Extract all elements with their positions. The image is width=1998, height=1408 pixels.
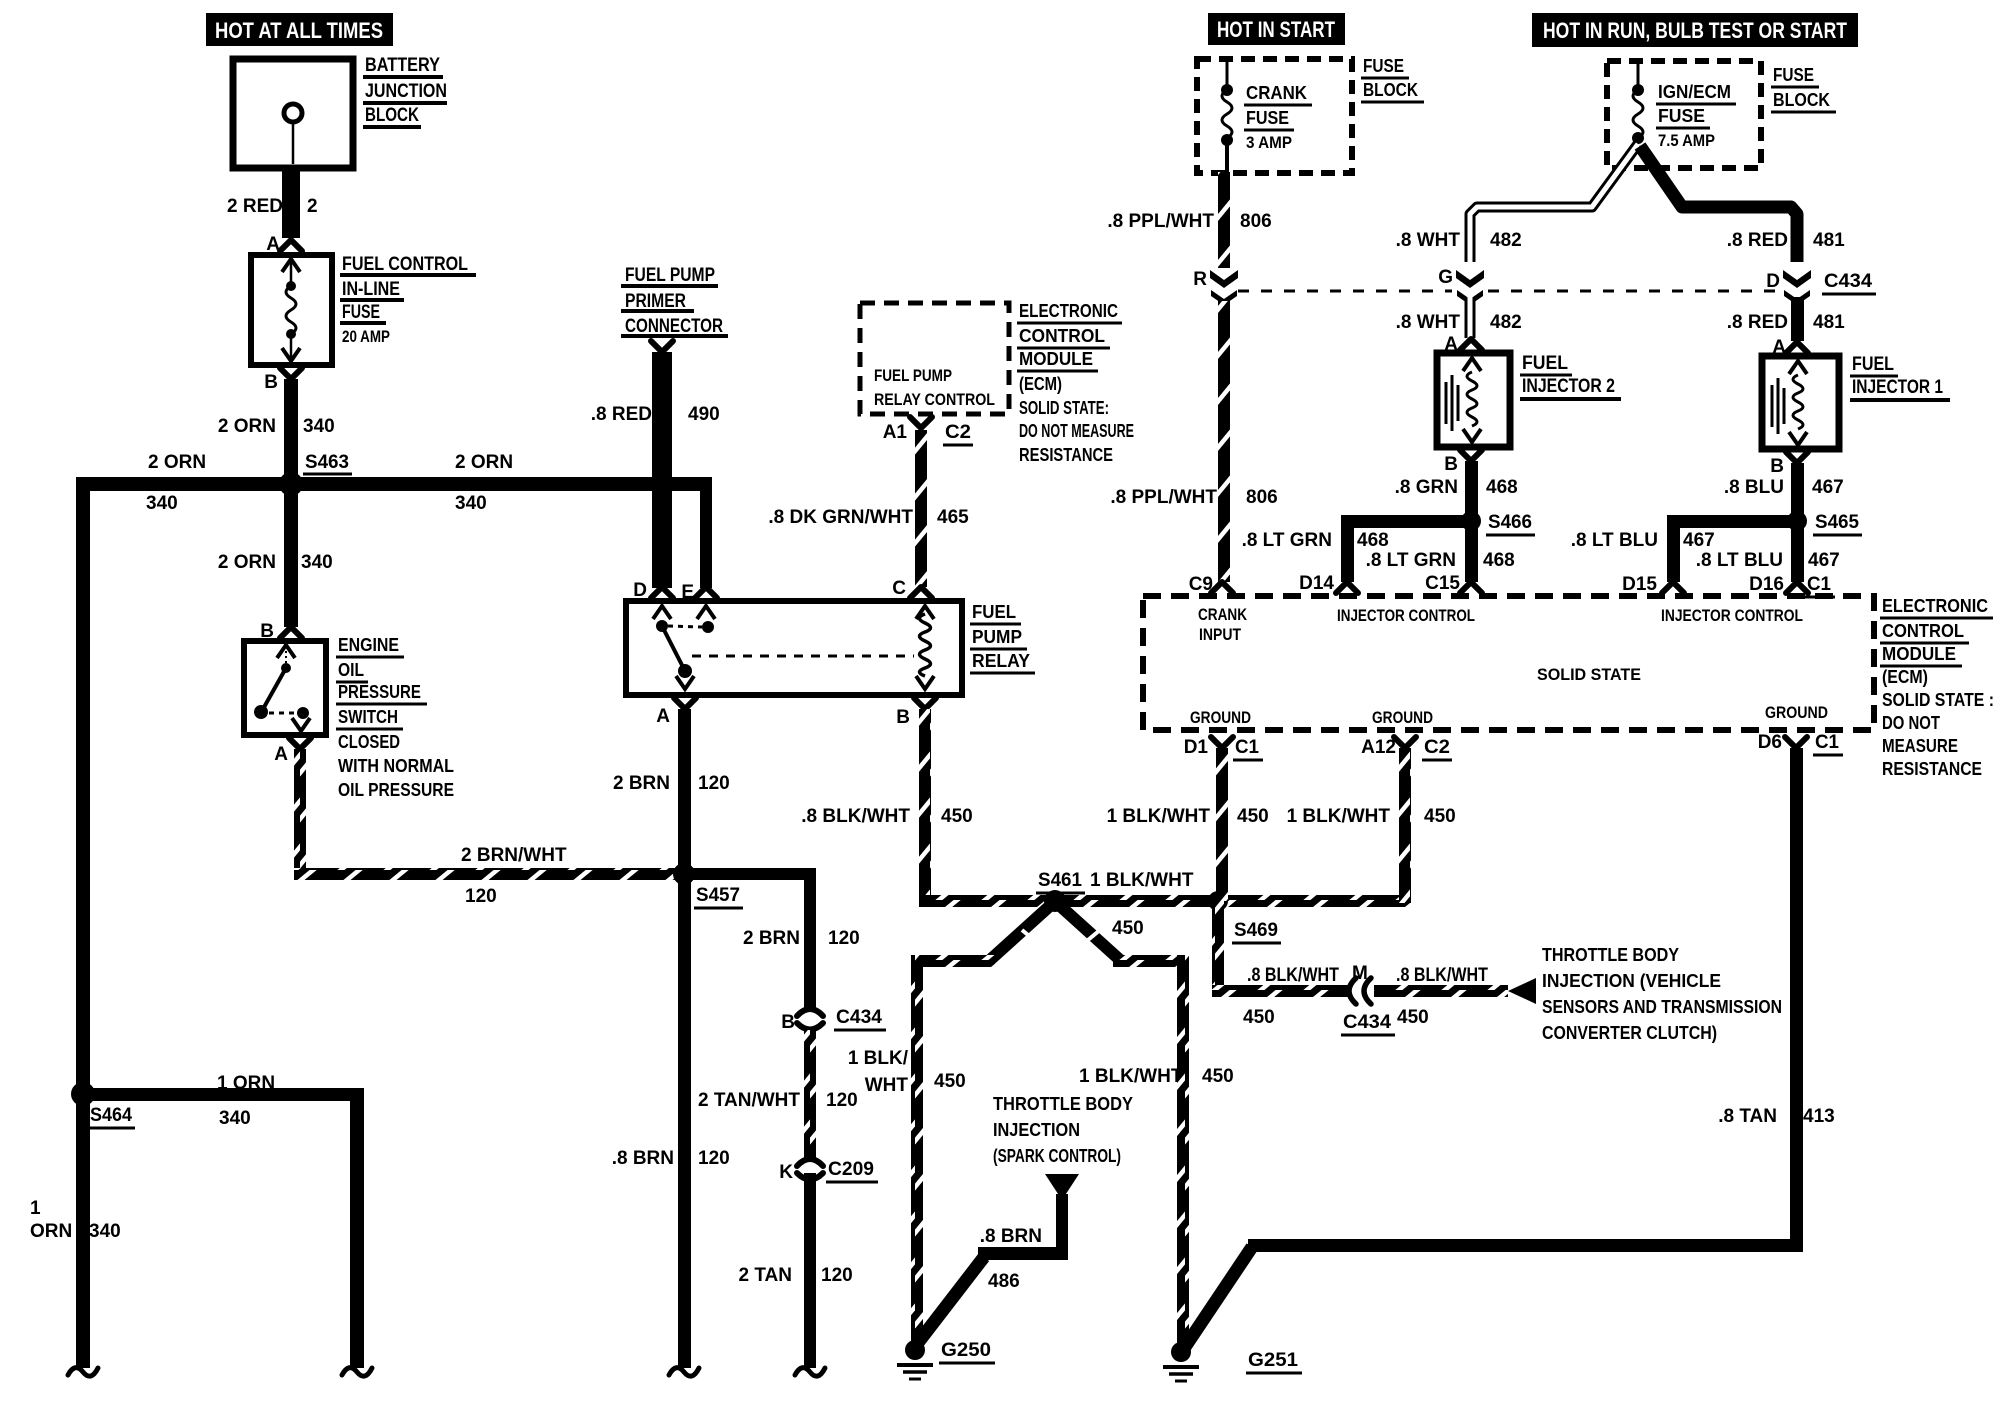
svg-text:SOLID STATE :: SOLID STATE : [1882,690,1994,710]
connector G of C434 [1456,270,1484,305]
svg-text:WITH NORMAL: WITH NORMAL [338,756,454,776]
svg-text:FUEL: FUEL [972,602,1016,622]
header HOT IN START [1208,13,1345,45]
svg-text:468: 468 [1483,550,1515,571]
svg-text:GROUND: GROUND [1765,703,1828,722]
svg-text:2 BRN/WHT: 2 BRN/WHT [461,845,567,866]
svg-text:340: 340 [455,493,487,514]
wire end hook 2 TAN [795,1368,825,1377]
svg-text:WHT: WHT [865,1075,909,1096]
wire D1 to S469, 1 BLK/WHT 450 striped [1216,748,1228,901]
connector C434 dashed line [1238,290,1452,293]
svg-text:1 BLK/WHT: 1 BLK/WHT [1079,1066,1183,1087]
svg-text:B: B [264,372,278,393]
svg-text:M: M [1352,963,1368,984]
svg-text:IGN/ECM: IGN/ECM [1658,82,1731,102]
svg-text:K: K [779,1162,793,1183]
svg-text:C434: C434 [1343,1012,1391,1033]
svg-text:.8 DK GRN/WHT: .8 DK GRN/WHT [768,507,913,528]
svg-text:A1: A1 [883,422,908,443]
svg-text:R: R [1193,269,1207,290]
node S463 [279,472,303,496]
wire S457 down, .8 BRN 120 [678,874,691,1368]
svg-text:INJECTION: INJECTION [993,1120,1080,1140]
svg-text:CRANK: CRANK [1198,605,1248,624]
connector pin B of injector 1 [1786,452,1808,463]
svg-text:1: 1 [30,1198,41,1219]
wire G250 to spark control, .8 BRN 486 [917,1257,984,1344]
svg-text:BLOCK: BLOCK [1773,90,1830,110]
fuel injector 1 [1762,356,1839,449]
off-page arrow spark control [1045,1174,1079,1200]
svg-text:MODULE: MODULE [1882,644,1956,664]
svg-text:2 ORN: 2 ORN [148,452,206,473]
wire tent right diagonal to G251 [1058,904,1120,960]
svg-text:806: 806 [1240,211,1272,232]
svg-text:340: 340 [219,1108,251,1129]
electronic control module ECM dashed box [1143,596,1874,730]
svg-text:S464: S464 [90,1105,132,1126]
svg-text:C2: C2 [945,422,971,443]
svg-text:340: 340 [303,416,335,437]
connector R of C434 [1210,270,1238,305]
svg-text:.8 BRN: .8 BRN [612,1148,674,1169]
connector pin A of relay [674,698,696,709]
svg-text:FUSE: FUSE [342,302,380,323]
svg-text:HOT IN START: HOT IN START [1217,17,1335,42]
wire S466 to C15, .8 LT GRN 468 [1465,521,1478,582]
connector pin D1 C1 of ECM [1211,737,1233,748]
svg-text:C434: C434 [836,1007,882,1028]
svg-text:C2: C2 [1424,737,1450,758]
wire S469 down and right, .8 BLK/WHT 450 striped [1212,901,1224,997]
wire M to off-page, .8 BLK/WHT 450 striped [1374,985,1508,997]
node S457 [673,863,695,885]
battery junction block B1 [233,59,353,168]
svg-text:467: 467 [1808,550,1840,571]
connector pin B of fuse [280,368,302,379]
off-page arrow to vehicle sensors [1508,978,1536,1004]
svg-text:.8 BLK/WHT: .8 BLK/WHT [1396,965,1488,986]
label throttle body injection spark control [993,1094,1133,1166]
svg-text:A: A [656,706,670,727]
wire left column 1 ORN 340 [76,477,90,1368]
svg-text:340: 340 [146,493,178,514]
label electronic control module right side [1880,596,1994,779]
svg-text:S465: S465 [1815,512,1859,533]
ECM dashed box fuel pump relay control U1a [860,303,1009,414]
svg-text:2 BRN: 2 BRN [613,773,670,794]
connector fuel pump primer [651,341,673,352]
ground G251 [1163,1342,1302,1381]
svg-text:BLOCK: BLOCK [365,105,419,126]
fuel injector 2 [1437,353,1510,447]
label fuel injector 1 [1850,354,1950,400]
svg-text:.8 BRN: .8 BRN [980,1226,1042,1247]
svg-text:C1: C1 [1815,732,1839,753]
svg-text:S466: S466 [1488,512,1532,533]
svg-text:450: 450 [941,806,973,827]
svg-text:20 AMP: 20 AMP [342,327,390,346]
connector pin D16 C1 of ECM [1786,582,1808,593]
svg-text:D14: D14 [1299,573,1334,594]
connector pin B of injector 2 [1460,450,1482,461]
svg-text:INJECTOR CONTROL: INJECTOR CONTROL [1337,606,1475,625]
svg-text:A12: A12 [1361,737,1396,758]
wire tent left diagonal to G250 [990,904,1052,960]
svg-text:481: 481 [1813,312,1845,333]
header HOT IN RUN, BULB TEST OR START [1532,13,1858,47]
svg-text:ELECTRONIC: ELECTRONIC [1019,301,1118,321]
fuse CRANK FUSE 3 AMP [1221,62,1233,172]
label battery junction block [363,55,447,127]
connector pin C15 of ECM [1460,582,1482,593]
label fuel control in-line fuse [340,254,476,346]
svg-text:465: 465 [937,507,969,528]
svg-text:.8 BLU: .8 BLU [1724,477,1784,498]
svg-text:PUMP: PUMP [972,627,1022,647]
svg-text:D: D [1766,271,1780,292]
svg-text:D1: D1 [1184,737,1209,758]
svg-text:(SPARK CONTROL): (SPARK CONTROL) [993,1146,1121,1166]
svg-text:2 TAN: 2 TAN [739,1265,792,1286]
svg-text:.8 WHT: .8 WHT [1396,312,1461,333]
svg-text:.8 BLK/WHT: .8 BLK/WHT [1247,965,1339,986]
svg-text:SWITCH: SWITCH [338,707,398,727]
wire end hook S464 branch [342,1368,372,1377]
svg-text:467: 467 [1683,530,1715,551]
wire end hook left [68,1368,98,1377]
wire oil switch A down, 2 BRN/WHT striped [294,749,306,870]
wire ground bus 1 BLK/WHT 450 striped [919,895,1411,907]
connector pin A1 C2 of ECM [910,417,932,428]
svg-text:SENSORS AND TRANSMISSION: SENSORS AND TRANSMISSION [1542,997,1782,1017]
wire S465 to D15, .8 LT BLU 467 [1667,515,1797,528]
svg-text:C9: C9 [1189,574,1213,595]
svg-text:2 TAN/WHT: 2 TAN/WHT [698,1090,800,1111]
svg-text:D15: D15 [1622,574,1657,595]
svg-text:340: 340 [301,552,333,573]
svg-text:FUSE: FUSE [1658,106,1705,126]
svg-text:1 BLK/WHT: 1 BLK/WHT [1287,806,1391,827]
svg-text:450: 450 [1112,918,1144,939]
connector pin A12 C2 of ECM [1394,737,1416,748]
svg-text:120: 120 [698,773,730,794]
engine oil pressure switch S1 [244,641,326,735]
connector pin A of injector 2 [1460,339,1482,350]
svg-text:.8 RED: .8 RED [591,404,652,425]
fuse IGN/ECM FUSE 7.5 AMP [1632,64,1644,144]
header HOT AT ALL TIMES [206,13,393,46]
wire D to injector 1 A, .8 RED 481 [1791,297,1804,341]
svg-text:RESISTANCE: RESISTANCE [1882,759,1982,779]
svg-text:.8 RED: .8 RED [1727,230,1788,251]
svg-text:BLOCK: BLOCK [1363,80,1418,100]
svg-text:120: 120 [828,928,860,949]
svg-text:3 AMP: 3 AMP [1246,133,1292,152]
label fuse block (crank) [1361,56,1424,102]
wire A12 to bus, 1 BLK/WHT 450 striped [1399,748,1411,903]
svg-text:S461: S461 [1038,870,1082,891]
wire S465 to D16, .8 LT BLU 467 [1791,521,1804,582]
wire 2 TAN/WHT 120 striped [804,1030,816,1158]
wire S464 to right, 1 ORN 340 [83,1088,364,1101]
svg-text:2 BRN: 2 BRN [743,928,800,949]
connector B C434 inline [781,1007,886,1033]
svg-text:INJECTOR 1: INJECTOR 1 [1852,377,1943,398]
label electronic control module (ecm) top [1017,301,1134,465]
wire ign fuse to G, .8 WHT 482 double line [1470,144,1638,262]
svg-text:2 ORN: 2 ORN [218,552,276,573]
svg-text:C434: C434 [1824,271,1872,292]
label crank fuse [1244,83,1312,152]
svg-text:B: B [781,1012,795,1033]
svg-text:MODULE: MODULE [1019,349,1093,369]
svg-text:GROUND: GROUND [1190,708,1251,727]
svg-text:1 BLK/WHT: 1 BLK/WHT [1090,870,1194,891]
svg-text:PRIMER: PRIMER [625,291,686,312]
wire S463 horizontal bus [76,477,712,491]
svg-text:FUEL: FUEL [1852,354,1894,375]
svg-text:SOLID STATE: SOLID STATE [1537,665,1641,684]
ground G250 [897,1340,995,1379]
svg-text:B: B [1770,456,1784,477]
label engine oil pressure switch [336,635,454,800]
svg-text:.8 PPL/WHT: .8 PPL/WHT [1110,487,1217,508]
svg-text:FUEL: FUEL [1522,353,1568,374]
svg-text:BATTERY: BATTERY [365,55,440,76]
svg-text:D6: D6 [1758,732,1782,753]
svg-text:RELAY: RELAY [972,651,1030,671]
svg-text:.8 LT GRN: .8 LT GRN [1242,530,1332,551]
wire G to injector 2 A, .8 WHT 482 double line [1465,299,1476,338]
svg-text:ORN: ORN [30,1221,72,1242]
wire R to ECM C9, .8 PPL/WHT 806 striped [1218,301,1230,582]
svg-text:FUSE: FUSE [1363,56,1404,76]
node S465 [1787,511,1807,531]
fuel control in-line fuse F1 [251,255,332,365]
wire ign fuse to D, .8 RED 481 [1640,146,1797,262]
label fuse block (right) [1771,65,1836,112]
svg-text:OIL PRESSURE: OIL PRESSURE [338,780,454,800]
svg-text:ENGINE: ENGINE [338,635,399,655]
svg-text:S463: S463 [305,452,349,473]
svg-text:2: 2 [307,196,318,217]
label ign/ecm fuse [1656,82,1736,150]
svg-text:INJECTOR CONTROL: INJECTOR CONTROL [1661,606,1803,625]
fuel pump relay K1 [626,601,962,695]
connector D of C434 [1783,270,1811,305]
svg-text:SOLID STATE:: SOLID STATE: [1019,398,1109,418]
svg-text:1 BLK/: 1 BLK/ [848,1048,909,1069]
svg-text:C15: C15 [1425,573,1460,594]
label fuel pump relay [970,602,1035,673]
svg-text:CLOSED: CLOSED [338,732,400,752]
svg-text:CONTROL: CONTROL [1882,621,1964,641]
svg-text:120: 120 [826,1090,858,1111]
fuse block dashed box (crank) [1197,59,1352,173]
connector pin A of oil switch [289,738,311,749]
wire relay B down, .8 BLK/WHT 450 striped [919,709,931,901]
connector pin C of relay [910,587,932,598]
svg-text:.8 RED: .8 RED [1727,312,1788,333]
svg-text:DO NOT MEASURE: DO NOT MEASURE [1019,421,1134,441]
svg-text:450: 450 [934,1071,966,1092]
svg-text:120: 120 [821,1265,853,1286]
svg-text:G250: G250 [941,1340,991,1361]
svg-text:413: 413 [1803,1106,1835,1127]
svg-text:450: 450 [1424,806,1456,827]
svg-text:7.5 AMP: 7.5 AMP [1658,131,1715,150]
fuse block dashed box (ign/ecm) [1607,61,1761,168]
svg-text:490: 490 [688,404,720,425]
wire S466 to D14, .8 LT GRN 468 [1341,515,1471,528]
svg-text:468: 468 [1357,530,1389,551]
wire fuse to S463, 2 ORN 340 [284,379,298,483]
svg-text:THROTTLE BODY: THROTTLE BODY [1542,945,1679,965]
svg-text:.8 LT BLU: .8 LT BLU [1571,530,1658,551]
label throttle body injection vehicle sensors [1542,945,1782,1043]
wire crank fuse to R, .8 PPL/WHT 806 striped [1218,172,1230,268]
svg-text:468: 468 [1486,477,1518,498]
svg-text:481: 481 [1813,230,1845,251]
wire end hook .8 BRN [669,1368,699,1377]
wire primer connector to relay D, .8 RED 490 [652,352,672,588]
connector pin A of fuse [280,240,302,251]
connector pin D6 C1 of ECM [1785,737,1807,748]
svg-text:.8 LT GRN: .8 LT GRN [1366,550,1456,571]
connector pin D14 of ECM [1336,582,1358,593]
svg-text:450: 450 [1237,806,1269,827]
svg-text:MEASURE: MEASURE [1882,736,1958,756]
svg-text:D16: D16 [1749,574,1784,595]
wire injector 2 B to S466, .8 GRN 468 [1465,461,1478,521]
svg-text:FUSE: FUSE [1246,108,1289,128]
svg-text:HOT IN RUN, BULB TEST OR START: HOT IN RUN, BULB TEST OR START [1543,18,1847,43]
svg-text:.8 PPL/WHT: .8 PPL/WHT [1107,211,1214,232]
svg-text:482: 482 [1490,230,1522,251]
svg-text:450: 450 [1397,1007,1429,1028]
svg-text:D: D [633,580,647,601]
svg-text:806: 806 [1246,487,1278,508]
svg-text:C1: C1 [1235,737,1259,758]
svg-text:B: B [896,707,910,728]
svg-text:FUEL PUMP: FUEL PUMP [625,265,715,286]
svg-text:.8 TAN: .8 TAN [1718,1106,1777,1127]
svg-text:.8 GRN: .8 GRN [1395,477,1458,498]
connector M C434 inline [1341,963,1395,1035]
svg-text:GROUND: GROUND [1372,708,1433,727]
svg-text:2 RED: 2 RED [227,196,283,217]
svg-text:RESISTANCE: RESISTANCE [1019,445,1113,465]
svg-text:FUEL PUMP: FUEL PUMP [874,366,952,385]
svg-text:HOT AT ALL TIMES: HOT AT ALL TIMES [215,18,383,43]
svg-text:DO NOT: DO NOT [1882,713,1940,733]
svg-text:1 ORN: 1 ORN [217,1073,275,1094]
svg-text:CONVERTER CLUTCH): CONVERTER CLUTCH) [1542,1023,1717,1043]
wire D6 to G251, .8 TAN 413 [1790,748,1803,1252]
svg-text:INJECTION (VEHICLE: INJECTION (VEHICLE [1542,971,1721,991]
svg-text:450: 450 [1243,1007,1275,1028]
svg-text:450: 450 [1202,1066,1234,1087]
connector pin A of injector 1 [1786,342,1808,353]
svg-text:G: G [1438,267,1453,288]
svg-text:G251: G251 [1248,1350,1298,1371]
svg-text:340: 340 [89,1221,121,1242]
svg-text:INJECTOR 2: INJECTOR 2 [1522,376,1615,397]
svg-text:A: A [274,744,288,765]
connector K C209 inline [779,1159,878,1183]
svg-text:.8 WHT: .8 WHT [1396,230,1461,251]
svg-text:467: 467 [1812,477,1844,498]
connector pin D15 of ECM [1662,582,1684,593]
svg-text:PRESSURE: PRESSURE [338,682,421,702]
svg-text:RELAY CONTROL: RELAY CONTROL [874,390,995,409]
wire battery to fuse, 2 RED 2 [282,168,300,238]
svg-text:CONTROL: CONTROL [1019,326,1105,346]
label fuel pump primer connector [621,265,728,337]
wire S463 branch to relay E [700,477,712,588]
svg-text:CONNECTOR: CONNECTOR [625,316,723,337]
svg-text:C: C [892,578,906,599]
svg-text:S469: S469 [1234,920,1278,941]
wire relay A to S457, 2 BRN 120 [678,709,691,874]
wire S457 branch right and down, 2 BRN 120 [684,868,816,880]
svg-text:THROTTLE BODY: THROTTLE BODY [993,1094,1133,1114]
node S466 [1461,511,1481,531]
svg-text:JUNCTION: JUNCTION [365,81,447,102]
node S469 [1208,891,1228,911]
connector pin C9 of ECM [1211,582,1233,593]
svg-text:120: 120 [465,886,497,907]
svg-text:C1: C1 [1807,574,1831,595]
svg-text:B: B [1444,454,1458,475]
svg-text:(ECM): (ECM) [1019,374,1062,394]
svg-text:2 ORN: 2 ORN [218,416,276,437]
svg-text:482: 482 [1490,312,1522,333]
svg-text:ELECTRONIC: ELECTRONIC [1882,596,1988,616]
svg-text:OIL: OIL [338,660,364,680]
label fuel injector 2 [1520,353,1621,399]
svg-text:INPUT: INPUT [1199,625,1242,644]
svg-text:CRANK: CRANK [1246,83,1307,103]
svg-text:IN-LINE: IN-LINE [342,279,400,300]
wire 2 TAN 120 [804,1173,816,1368]
svg-text:1 BLK/WHT: 1 BLK/WHT [1107,806,1211,827]
svg-text:FUEL CONTROL: FUEL CONTROL [342,254,468,275]
svg-text:A: A [266,234,280,255]
wire 2 BRN/WHT horizontal to S457 [294,868,678,880]
svg-text:2 ORN: 2 ORN [455,452,513,473]
connector pin B of oil switch [280,627,302,638]
connector pin B of relay [914,698,936,709]
svg-text:(ECM): (ECM) [1882,667,1928,687]
svg-text:486: 486 [988,1271,1020,1292]
wire S463 down to oil pressure switch, 2 ORN 340 [284,484,298,627]
svg-text:FUSE: FUSE [1773,65,1814,85]
svg-text:.8 LT BLU: .8 LT BLU [1696,550,1783,571]
svg-text:.8 BLK/WHT: .8 BLK/WHT [801,806,910,827]
svg-text:120: 120 [698,1148,730,1169]
connector pin D of relay [651,587,673,598]
svg-text:C209: C209 [828,1159,874,1180]
node S464 [71,1082,95,1106]
connector pin E of relay [695,587,717,598]
wire A1 to relay C, .8 DK GRN/WHT 465 striped [915,430,927,587]
svg-text:S457: S457 [696,885,740,906]
wire injector 1 B to S465, .8 BLU 467 [1791,463,1804,521]
